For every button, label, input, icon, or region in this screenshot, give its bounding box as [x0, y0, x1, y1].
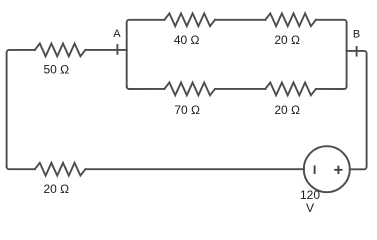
node A tick: [116, 44, 118, 55]
svg-text:70 Ω: 70 Ω: [174, 103, 200, 117]
wire inner rect left edge and top-left corner: [127, 20, 165, 87]
resistor R5 20 ohm bottom branch: [265, 83, 316, 96]
resistor R4 70 ohm: [164, 83, 215, 96]
svg-text:40 Ω: 40 Ω: [174, 33, 200, 47]
svg-text:50 Ω: 50 Ω: [43, 62, 69, 76]
svg-text:B: B: [353, 28, 360, 40]
resistor R3 20 ohm top branch: [265, 13, 316, 26]
resistor R2 40 ohm: [164, 13, 215, 26]
svg-text:20 Ω: 20 Ω: [43, 182, 69, 196]
wire from 50 ohm through node A to inner rect left edge: [85, 49, 126, 51]
voltage source V1 circle: [304, 146, 350, 192]
voltage source plus sign: [335, 167, 341, 174]
wire between 40 ohm and top 20 ohm: [215, 19, 265, 21]
wire from bottom 20 ohm to source: [85, 168, 304, 170]
resistor R1 50 ohm: [35, 44, 86, 57]
wire inner rect top-right corner and right edge: [316, 20, 347, 89]
svg-text:120: 120: [300, 188, 320, 202]
wire inner rect bottom-left corner: [127, 87, 165, 90]
voltage source negative terminal bar: [314, 166, 316, 173]
wire bottom-left corner and run to 20 ohm: [7, 167, 35, 170]
wire left vertical with top-left corner to 50 ohm: [7, 50, 35, 167]
node B tick: [356, 46, 358, 57]
svg-text:20 Ω: 20 Ω: [274, 103, 300, 117]
svg-text:A: A: [113, 28, 121, 40]
resistor R6 20 ohm bottom left: [35, 163, 86, 176]
wire between 70 ohm and bottom 20 ohm: [215, 88, 265, 90]
svg-text:20 Ω: 20 Ω: [274, 33, 300, 47]
wire node B row to right vertical down to source: [347, 51, 367, 169]
svg-text:V: V: [306, 201, 314, 215]
